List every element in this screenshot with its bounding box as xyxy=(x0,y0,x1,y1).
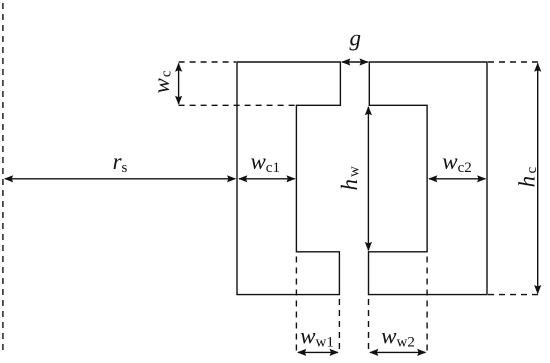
extension line wc top (dashed) xyxy=(179,61,236,63)
left core outline xyxy=(237,62,340,295)
extension line ww1 left (dashed) xyxy=(295,257,297,353)
dimension arrow rs xyxy=(4,175,236,182)
dimension arrow hw (vertical, window height) xyxy=(365,106,372,251)
extension line ww2 left (dashed) xyxy=(368,299,370,352)
right core outline xyxy=(369,62,488,295)
extension line hc top (dashed) xyxy=(488,61,542,63)
dimension arrow ww1 xyxy=(297,349,339,356)
dimension arrow wc2 xyxy=(428,175,486,182)
dimension arrow ww2 xyxy=(369,349,426,356)
extension line hc bottom (dashed) xyxy=(488,294,542,296)
dimension arrow wc1 xyxy=(238,175,295,182)
extension line ww2 right (dashed) xyxy=(426,257,428,353)
dimension arrow hc (vertical, core height) xyxy=(534,63,541,295)
dimension arrow g (air gap) xyxy=(341,58,368,65)
extension line wc bottom (dashed) xyxy=(179,104,296,106)
extension line ww1 right (dashed) xyxy=(338,299,340,352)
axis of symmetry (dashed centerline) xyxy=(2,3,4,355)
svg-text:g: g xyxy=(350,26,362,51)
dimension arrow wc (vertical, top left) xyxy=(175,63,182,105)
